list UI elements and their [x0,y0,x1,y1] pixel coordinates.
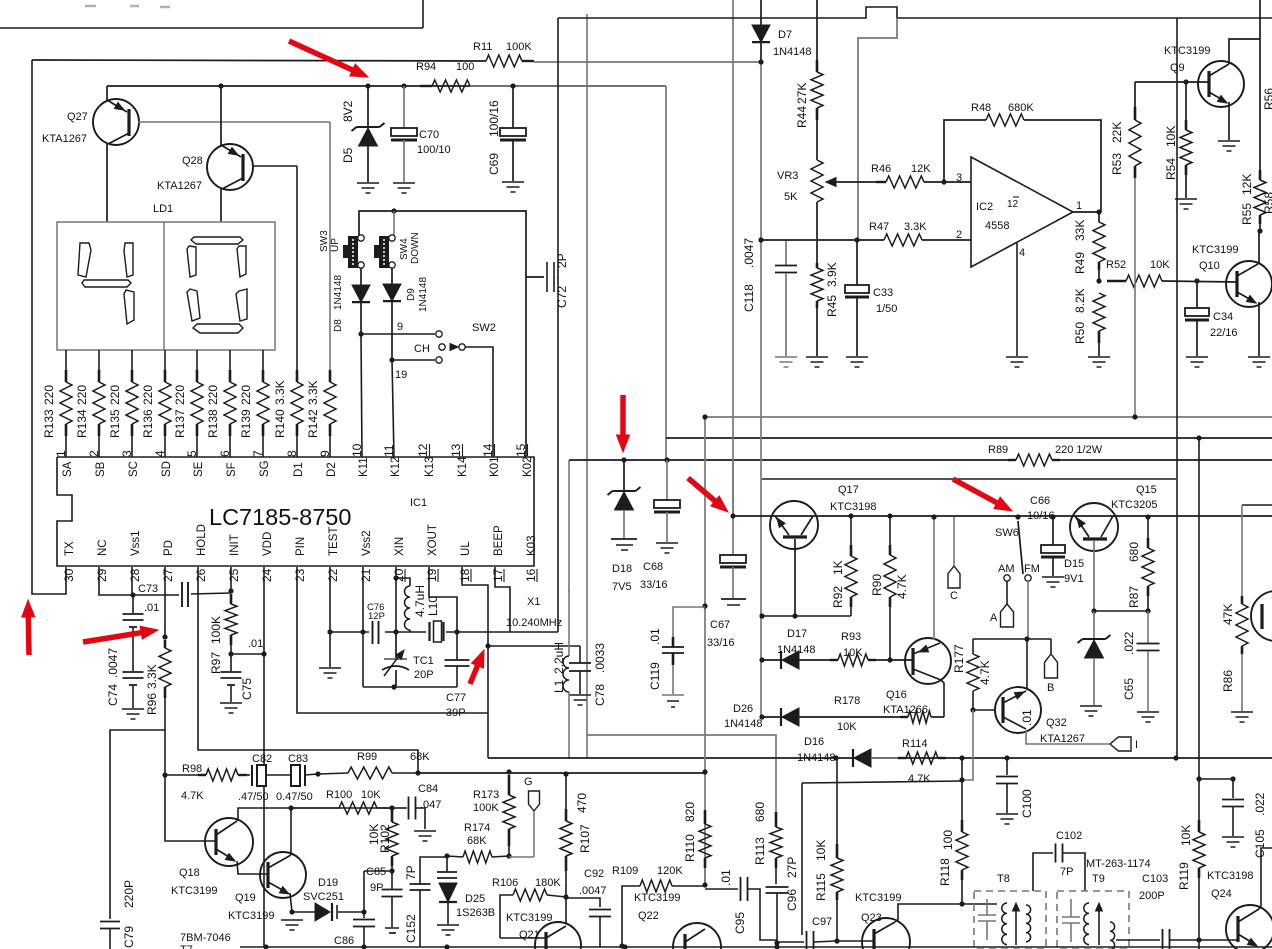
resistor R46 12K [845,181,876,183]
transistor Q23 KTC3199 [862,918,910,949]
svg-text:20: 20 [392,568,406,582]
svg-text:R133: R133 [42,409,56,438]
resistor R87 680 [1145,514,1150,519]
svg-text:1N4148: 1N4148 [418,277,429,312]
svg-text:R119: R119 [1177,862,1191,890]
svg-text:KTC3199: KTC3199 [1164,45,1210,57]
svg-text:R178: R178 [834,695,860,707]
svg-text:R87: R87 [1127,586,1141,608]
svg-text:R53: R53 [1110,153,1124,175]
wire Q32 to terminal I [1026,730,1110,744]
svg-text:D25: D25 [465,893,485,905]
svg-text:22K: 22K [1110,122,1124,143]
resistor R89 220 1/2W [1008,452,1060,468]
node D15 R87 [1094,610,1148,612]
svg-text:200P: 200P [1139,890,1165,902]
svg-text:K12: K12 [390,457,402,477]
wire top frame right [558,7,1272,18]
svg-text:10K: 10K [843,647,863,659]
svg-text:9P: 9P [370,882,383,894]
svg-text:DOWN: DOWN [410,232,421,264]
top supply wire [32,60,486,61]
svg-text:IC1: IC1 [410,497,427,509]
svg-text:D16: D16 [804,736,824,748]
svg-text:4558: 4558 [985,220,1009,232]
ground C69 [502,181,524,183]
wire Q19 emitter [290,893,292,912]
svg-text:R109: R109 [612,865,638,877]
svg-text:R137: R137 [173,409,187,438]
svg-text:K03: K03 [526,536,538,556]
svg-text:68K: 68K [467,835,487,847]
resistor R52 10K [1096,278,1101,283]
svg-text:10K: 10K [361,789,381,801]
svg-text:R86: R86 [1221,670,1235,692]
svg-text:7V5: 7V5 [612,581,632,593]
svg-text:R100: R100 [326,789,352,801]
svg-text:10K: 10K [814,840,828,861]
svg-text:R52: R52 [1106,259,1126,271]
ground C75 [220,702,242,704]
svg-text:.01: .01 [1020,709,1034,726]
svg-text:25: 25 [227,568,241,582]
svg-text:33/16: 33/16 [640,579,668,591]
svg-text:22/16: 22/16 [1210,327,1238,339]
svg-text:K02: K02 [522,457,534,477]
svg-text:C152: C152 [404,914,418,943]
svg-text:10K: 10K [1164,126,1178,147]
wire 8V rail [107,85,666,87]
svg-text:G: G [524,776,533,788]
wire Q16 emitter [941,680,944,717]
resistor R54 10K [1183,79,1188,84]
resistor R173 100K [508,775,511,795]
svg-text:4.7K: 4.7K [895,574,909,599]
capacitor C119 .01 [702,603,707,608]
resistor R100 10K [291,807,339,809]
resistor R45 3.9K [816,202,818,263]
edge marks [85,5,96,8]
capacitor C33 1/50 [856,240,858,285]
svg-text:R45: R45 [825,295,839,317]
svg-text:.01: .01 [719,869,733,886]
transistor Q24 KTC3198 [1226,905,1272,949]
svg-text:12P: 12P [368,611,385,622]
ground C74 [122,708,144,710]
svg-text:R96: R96 [145,693,159,715]
svg-text:Q24: Q24 [1211,888,1232,900]
svg-text:12: 12 [416,443,430,457]
wire pin20 XIN [395,567,397,578]
svg-text:FM: FM [1024,563,1040,575]
resistor R135 [131,350,133,370]
digit 4 segment G [82,280,131,287]
svg-text:R48: R48 [971,102,991,114]
svg-text:C92: C92 [584,868,604,880]
svg-text:CH: CH [414,343,430,355]
svg-text:23: 23 [293,568,307,582]
svg-text:100: 100 [456,61,474,73]
svg-text:R44: R44 [795,106,809,128]
wire bus y479 [762,478,1176,480]
wire C79 branch [110,730,165,919]
svg-text:D5: D5 [341,147,355,163]
resistor R44 27K [816,0,818,60]
ground Q9 [1218,140,1240,142]
svg-text:R139: R139 [239,409,253,438]
svg-text:IC2: IC2 [976,201,993,213]
ground C84 [414,830,436,832]
svg-text:10/16: 10/16 [1027,510,1055,522]
inductor L1 2.2uH [568,590,570,656]
svg-text:1K: 1K [831,560,845,575]
svg-text:17: 17 [491,568,505,582]
diode D7 1N4148 [760,0,762,25]
ground C68 [656,542,678,544]
svg-text:KTC3199: KTC3199 [634,892,680,904]
resistor R136 [164,350,166,370]
ground Q19 [281,919,303,921]
ground TEST [319,667,341,669]
svg-text:21: 21 [359,568,373,582]
wire D8 to pin10 [358,331,363,336]
svg-text:4: 4 [1019,247,1025,259]
svg-text:7P: 7P [404,865,418,880]
svg-text:4.7uH: 4.7uH [413,585,427,617]
svg-text:5: 5 [185,450,199,457]
svg-text:Q19: Q19 [235,892,256,904]
svg-text:19: 19 [425,568,439,582]
svg-text:KTC3199: KTC3199 [855,892,901,904]
digit 4 segment B [124,243,133,277]
svg-text:1/50: 1/50 [876,303,897,315]
capacitor C86 [363,912,365,918]
svg-text:KTC3199: KTC3199 [506,912,552,924]
transistor Q9 KTC3199 [1198,61,1244,107]
svg-text:C105: C105 [1253,829,1267,858]
diode D9 1N4148 [391,268,393,284]
svg-text:L1: L1 [552,679,566,693]
transistor Q21 KTC3199 [500,937,546,939]
svg-text:3.3K: 3.3K [145,664,159,689]
node rail y616 [762,615,851,617]
svg-text:PD: PD [163,540,175,556]
trimmer TC1 20P [395,632,397,658]
wire bus y735 [586,735,776,820]
transistor right edge [1251,591,1272,641]
crystal rail [330,631,369,633]
resistor R114 4.7K [898,757,906,759]
svg-text:Q9: Q9 [1170,62,1185,74]
svg-text:.0047: .0047 [579,885,607,897]
svg-text:Q32: Q32 [1046,717,1067,729]
svg-text:NC: NC [97,539,109,556]
resistor R48 680K feedback [944,120,986,182]
digit 4 segment C [124,290,134,324]
capacitor C68 33/16 [664,457,669,462]
svg-text:12K: 12K [1240,174,1254,195]
capacitor C69 [470,85,666,87]
transistor Q15 KTC3205 [1070,503,1118,551]
digit 0 segment B [237,246,246,277]
svg-text:9: 9 [318,450,332,457]
resistor R110 820 [704,810,707,824]
wire pin27 PD [164,567,166,637]
wire C97 node up [801,783,803,935]
capacitor C76 12P [372,621,374,644]
wire UL down [487,646,489,758]
capacitor C74 chain [132,595,134,613]
svg-text:3.9K: 3.9K [825,262,839,287]
wire trunk x733 [732,0,734,516]
svg-text:29: 29 [95,568,109,582]
svg-text:D15: D15 [1064,558,1084,570]
svg-text:.01: .01 [248,638,263,650]
node pin25 [228,651,233,656]
capacitor C78 .0033 [579,646,581,663]
left frame wire [32,60,66,594]
wire TC1 bottom rail [363,686,457,688]
wire trunk x761 from D7 [760,62,762,717]
svg-text:28: 28 [128,568,142,582]
svg-text:B: B [1047,682,1054,694]
resistor R178 10K [900,716,908,718]
svg-text:220: 220 [173,385,187,405]
svg-text:.022: .022 [1122,631,1136,655]
svg-text:SW2: SW2 [472,322,496,334]
capacitor C75 [230,654,232,671]
svg-text:C100: C100 [1020,789,1034,818]
svg-text:0.47/50: 0.47/50 [276,791,313,803]
svg-text:C102: C102 [1056,830,1082,842]
switch SW4 DOWN [379,236,389,268]
svg-text:KTC3199: KTC3199 [171,885,217,897]
wire Q18 emitter to Q19 base [237,861,268,874]
capacitor C84 .047 [392,807,407,809]
svg-text:AM: AM [998,563,1015,575]
svg-text:TEST: TEST [328,527,340,556]
capacitor C77 39P [456,632,458,660]
svg-text:L10: L10 [426,596,440,616]
wire R177 bottom [962,710,973,780]
svg-text:R54: R54 [1164,158,1178,180]
wire D9 to pin11 [389,357,394,362]
diode D17 1N4148 [759,657,764,662]
svg-text:Q16: Q16 [886,689,907,701]
transistor Q22 KTC3199 [673,923,721,949]
capacitor C72 2P [526,276,544,278]
resistor R137 [196,350,198,370]
svg-text:C103: C103 [1142,873,1168,885]
capacitor C70 [401,83,406,88]
svg-text:TC1: TC1 [413,655,434,667]
capacitor C82 .47/50 [247,774,250,776]
svg-text:6: 6 [218,450,232,457]
svg-text:R174: R174 [464,822,490,834]
zener diode D15 9V1 [1091,608,1096,613]
svg-text:R89: R89 [988,444,1008,456]
svg-text:16: 16 [524,568,538,582]
annotation arrow 7 [470,666,478,684]
svg-text:C75: C75 [240,678,254,700]
ground R54 [1175,198,1197,200]
svg-text:9V1: 9V1 [1064,573,1084,585]
svg-text:K13: K13 [424,457,436,477]
svg-text:.047: .047 [420,799,441,811]
wire opamp frame gray [858,18,897,240]
svg-text:100K: 100K [506,41,532,53]
svg-text:R135: R135 [108,409,122,438]
svg-text:7P: 7P [1060,866,1073,878]
svg-text:220: 220 [75,385,89,405]
svg-text:R134: R134 [75,409,89,438]
svg-text:12: 12 [1007,199,1019,210]
annotation arrow 2 [620,395,626,435]
svg-text:100: 100 [941,830,955,850]
svg-text:C65: C65 [1122,678,1136,700]
annotation arrow 5 [26,617,32,655]
svg-text:8V2: 8V2 [341,100,355,122]
transistor Q32 KTA1267 [973,709,995,711]
svg-text:R55: R55 [1240,203,1254,225]
resistor R115 10K [836,758,838,844]
svg-text:KTA1267: KTA1267 [42,133,87,145]
resistor R174 68K [447,856,463,857]
svg-text:Vss2: Vss2 [361,530,373,556]
svg-text:XOUT: XOUT [427,524,439,556]
svg-text:1N4148: 1N4148 [773,46,812,58]
svg-text:4: 4 [153,450,167,457]
wire pin28 [131,567,133,595]
svg-text:33K: 33K [1073,220,1087,241]
svg-text:R97: R97 [209,652,223,674]
svg-text:R136: R136 [141,409,155,438]
svg-text:10K: 10K [1179,825,1193,846]
resistor R97 100K [230,567,232,592]
svg-text:X1: X1 [527,596,540,608]
transistor Q18 KTC3199 [165,775,216,841]
svg-text:12K: 12K [911,163,931,175]
svg-text:R98: R98 [182,763,202,775]
svg-text:Q21: Q21 [519,929,540,941]
wire Q21 collector [565,897,567,924]
svg-text:KTC3198: KTC3198 [830,501,876,513]
wire bottom bus [240,946,1272,948]
resistor R11 [486,55,522,67]
svg-text:C33: C33 [873,287,893,299]
resistor R106 180K [500,895,513,938]
svg-text:Q27: Q27 [67,111,88,123]
annotation arrow 4 [953,479,997,503]
svg-text:C78: C78 [593,684,607,706]
wire pin21 Vss2 [362,567,364,687]
transistor Q19 KTC3199 [260,852,306,898]
potentiometer VR3 5K [811,160,823,202]
svg-text:C73: C73 [138,583,158,595]
svg-text:R114: R114 [902,738,927,750]
svg-text:Q15: Q15 [1136,484,1157,496]
resistor R94 [420,85,432,87]
resistor R102 10K [391,810,394,822]
capacitor C103 200P [1116,939,1160,941]
svg-text:120K: 120K [657,865,683,877]
wire bus y417 [705,416,1272,418]
svg-text:C72: C72 [555,286,569,308]
ground C66 [1042,576,1064,578]
svg-text:KTC3205: KTC3205 [1111,499,1157,511]
svg-text:100/16: 100/16 [487,100,501,137]
svg-text:220 1/2W: 220 1/2W [1055,444,1103,456]
wire trunk x705 [704,417,706,885]
resistor R134 [98,350,100,370]
svg-text:R56: R56 [1262,88,1272,110]
resistor R138 [229,350,231,370]
ground C65 [1137,711,1159,713]
svg-text:100/10: 100/10 [417,144,451,156]
wire Q28 base [252,165,297,167]
svg-text:1: 1 [54,450,68,457]
svg-text:C96: C96 [785,889,799,911]
svg-text:R93: R93 [841,631,861,643]
svg-text:D1: D1 [293,462,305,477]
svg-text:R90: R90 [870,574,884,596]
svg-text:.01: .01 [648,628,662,645]
resistor R92 1K [848,513,853,518]
transistor Q28 [218,83,223,88]
svg-text:C86: C86 [334,935,354,947]
svg-text:.47/50: .47/50 [238,791,269,803]
svg-text:470: 470 [575,793,589,813]
svg-text:26: 26 [194,568,208,582]
ground C105 [1222,836,1244,838]
capacitor C95 .01 [705,888,738,890]
transistor Q10 KTC3199 [1226,261,1272,307]
capacitor C85 9P [391,871,393,889]
diode D25 1S263B [444,853,449,858]
svg-text:R47: R47 [869,221,889,233]
digit 4 segment F [78,243,91,277]
svg-text:3: 3 [120,450,134,457]
svg-text:SW4: SW4 [399,238,410,260]
svg-text:I: I [1135,739,1138,751]
wire rail y516 [733,515,1272,517]
wire Q19 collector [290,808,292,855]
svg-text:7BM-7046: 7BM-7046 [180,932,231,944]
svg-text:220P: 220P [122,880,136,908]
svg-text:R99: R99 [357,751,377,763]
ground C119 [662,694,684,696]
capacitor C102 7P [1033,853,1053,891]
svg-text:C118: C118 [742,284,756,312]
svg-text:A: A [990,612,998,624]
resistor R55 12K [1259,0,1261,39]
svg-text:3.3K: 3.3K [904,221,927,233]
wire bus y438 [666,437,1272,439]
svg-text:2: 2 [87,450,101,457]
ground R45 [806,356,828,358]
svg-text:220: 220 [42,385,56,405]
wire Q24 collector [1259,848,1272,909]
resistor R107 470 [563,771,568,776]
wire Q27 to R142 [329,122,331,370]
capacitor C34 22/16 [1194,278,1199,283]
svg-text:R102: R102 [378,824,392,853]
digit 0 segment A [191,237,243,244]
svg-text:T7: T7 [180,944,193,949]
resistor R133 [65,350,67,370]
resistor R53 22K [1134,82,1136,107]
svg-text:C: C [950,590,958,602]
